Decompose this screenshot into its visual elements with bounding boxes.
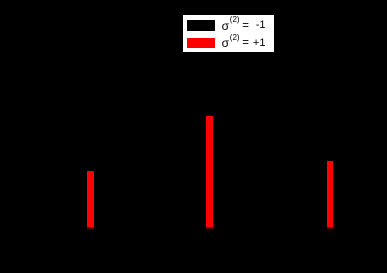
- bar 1 bottom fade: [87, 227, 94, 230]
- bar 3 bottom fade: [327, 227, 334, 230]
- bar 3 (right red bar): [327, 161, 334, 227]
- legend box: [183, 15, 274, 52]
- bar 2 bottom fade: [206, 227, 213, 230]
- bar 2 (middle red bar): [206, 116, 213, 227]
- legend row 1 text: sigma^(2) = -1: [222, 20, 229, 32]
- legend swatch red: [187, 38, 215, 49]
- legend row 2 text: sigma^(2) = +1: [222, 37, 229, 49]
- bar 1 (left red bar): [87, 171, 94, 227]
- legend swatch black: [187, 20, 215, 31]
